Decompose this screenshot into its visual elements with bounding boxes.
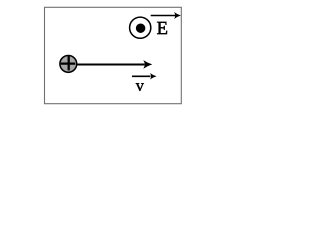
out-of-page field symbol dot [136, 23, 146, 33]
v label arrowhead [150, 73, 157, 80]
E vector arrow shaft [151, 15, 176, 17]
velocity vector shaft [77, 64, 145, 66]
label v [136, 83, 144, 91]
E vector arrowhead [174, 12, 181, 19]
v label arrow shaft [132, 75, 151, 77]
field region boundary box [45, 7, 182, 103]
plus sign on charge [61, 56, 75, 70]
label E [157, 22, 167, 34]
velocity vector arrowhead [143, 60, 152, 69]
out-of-page field symbol outer circle [130, 17, 151, 38]
positive charge q [60, 56, 77, 73]
